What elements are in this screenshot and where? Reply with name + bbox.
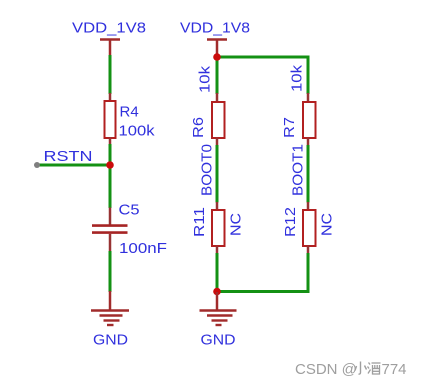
ground GND bar4 (left) <box>107 324 114 326</box>
wire RSTN horizontal <box>37 164 110 167</box>
resistor R4 body <box>105 101 116 138</box>
ground GND bar2 (left) <box>100 314 123 316</box>
pin R11 bottom <box>216 246 219 255</box>
svg-text:R4: R4 <box>120 104 139 121</box>
wire bottom horizontal <box>217 290 308 293</box>
ground GND stem (right) <box>216 292 219 310</box>
pin endpoint dot RSTN <box>34 162 40 168</box>
ground GND bar3 (right) <box>212 319 228 321</box>
svg-text:GND: GND <box>93 332 128 349</box>
wire R6 to R11 <box>216 145 219 203</box>
power VDD_1V8 symbol bar (right) <box>207 38 227 41</box>
capacitor C5 plate top <box>92 224 128 227</box>
wire C5 to GND <box>109 251 112 292</box>
svg-text:GND: GND <box>201 332 236 349</box>
power VDD_1V8 symbol stem (right) <box>216 39 219 55</box>
wire node to C5 <box>109 165 112 208</box>
resistor R11 body <box>212 210 225 246</box>
svg-text:VDD_1V8: VDD_1V8 <box>180 20 250 37</box>
ground GND bar3 (left) <box>104 319 120 321</box>
pin R6 top <box>216 93 219 102</box>
svg-text:100k: 100k <box>119 123 156 140</box>
wire R11 to bottom node <box>216 253 219 292</box>
ground GND bar4 (right) <box>216 324 222 326</box>
resistor R6 body <box>212 102 225 138</box>
resistor R7 body <box>303 102 316 138</box>
pin C5 bottom <box>109 234 112 253</box>
pin C5 top <box>109 208 112 225</box>
capacitor C5 plate bottom <box>92 231 128 234</box>
svg-text:10k: 10k <box>288 64 305 92</box>
wire R4 to node <box>109 144 112 165</box>
junction node RSTN <box>106 161 114 169</box>
ground GND stem (left) <box>109 291 112 310</box>
junction node top right <box>213 53 221 61</box>
svg-text:774: 774 <box>382 361 407 378</box>
svg-text:BOOT1: BOOT1 <box>290 144 307 196</box>
ground GND bar2 (right) <box>207 314 233 316</box>
ground GND bar1 (left) <box>91 309 129 311</box>
wire down to R6 <box>216 57 219 94</box>
resistor R12 body <box>303 210 316 246</box>
svg-text:R12: R12 <box>282 207 299 237</box>
pin R12 top <box>307 202 310 211</box>
svg-text:R6: R6 <box>190 117 207 138</box>
pin R4 bottom <box>109 138 112 146</box>
wire top horizontal <box>217 56 308 59</box>
junction node bottom right <box>213 288 221 296</box>
svg-text:BOOT0: BOOT0 <box>199 144 216 196</box>
svg-text:NC: NC <box>228 213 245 236</box>
wire VDD to R4 <box>109 55 112 94</box>
svg-text:100nF: 100nF <box>119 240 167 257</box>
svg-text:C5: C5 <box>119 202 140 219</box>
svg-text:RSTN: RSTN <box>44 148 93 165</box>
wire R12 to bottom wire <box>307 253 310 293</box>
pin R7 bottom <box>307 138 310 147</box>
pin R6 bottom <box>216 138 219 147</box>
ground GND bar1 (right) <box>200 309 237 311</box>
pin R7 top <box>307 93 310 102</box>
wire R7 to R12 <box>307 145 310 203</box>
svg-text:NC: NC <box>319 213 336 236</box>
svg-text:VDD_1V8: VDD_1V8 <box>72 20 146 37</box>
pin R11 top <box>216 202 219 211</box>
power VDD_1V8 symbol bar (left) <box>100 38 120 41</box>
pin R12 bottom <box>307 246 310 255</box>
watermark glyph xiao <box>355 362 367 375</box>
watermark glyph jiu <box>368 363 381 375</box>
svg-text:10k: 10k <box>196 65 213 93</box>
svg-text:CSDN @: CSDN @ <box>295 361 357 378</box>
power VDD_1V8 symbol stem (left) <box>109 39 112 57</box>
svg-text:R7: R7 <box>281 117 298 138</box>
svg-text:R11: R11 <box>191 207 208 237</box>
wire down to R7 <box>307 56 310 95</box>
pin R4 top <box>109 93 112 102</box>
